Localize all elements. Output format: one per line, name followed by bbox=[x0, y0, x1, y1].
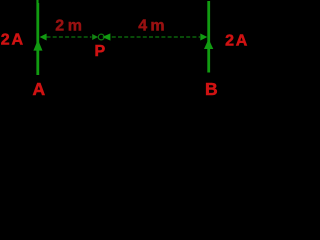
svg-text:2: 2 bbox=[55, 18, 64, 35]
svg-text:B: B bbox=[205, 79, 218, 99]
svg-text:A: A bbox=[33, 79, 46, 99]
svg-text:2: 2 bbox=[1, 32, 10, 49]
dimension line P to B (4 m), dashed bbox=[112, 36, 200, 38]
wire A bbox=[36, 0, 39, 75]
svg-text:m: m bbox=[150, 18, 164, 35]
svg-text:A: A bbox=[236, 33, 248, 50]
dimension arrowhead pointing left at wire A bbox=[40, 34, 47, 41]
svg-text:A: A bbox=[12, 32, 24, 49]
dimension arrowhead pointing right at P bbox=[92, 34, 98, 40]
node P circle bbox=[98, 34, 104, 40]
wire A current arrowhead (up) bbox=[33, 40, 42, 51]
svg-text:2: 2 bbox=[225, 33, 234, 50]
dimension line A to P (2 m), dashed bbox=[47, 36, 92, 38]
svg-text:m: m bbox=[68, 18, 82, 35]
wire B current arrowhead (up) bbox=[204, 39, 213, 49]
dimension arrowhead pointing right at wire B bbox=[200, 34, 207, 41]
wire B bbox=[207, 1, 210, 73]
dimension arrowhead pointing left at P bbox=[102, 33, 110, 40]
svg-text:P: P bbox=[95, 43, 106, 60]
svg-text:4: 4 bbox=[138, 18, 147, 35]
